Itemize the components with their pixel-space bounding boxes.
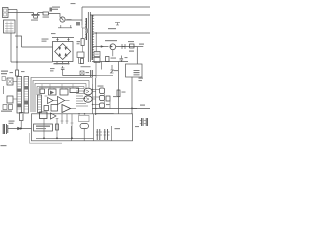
- transistor Q1: [60, 17, 65, 22]
- diode D6 on rail3: [110, 45, 113, 48]
- connector J1 (AC inlet): [3, 8, 9, 18]
- snubber network primary: [77, 52, 84, 58]
- vertical line v96: [95, 78, 97, 115]
- transformer T1 primary winding: [85, 18, 87, 40]
- feedback wires bundle: [76, 89, 88, 107]
- junction AC node 1: [16, 46, 18, 48]
- wire secondary rail 1: [91, 14, 151, 16]
- wire bridge minus return: [63, 72, 96, 76]
- wire primary snubber row: [58, 25, 72, 28]
- wire cap bottom: [34, 17, 38, 19]
- wire h108: [92, 108, 137, 110]
- diode D6: [101, 45, 104, 48]
- part right on rail: [130, 44, 135, 48]
- wire secondary rail 2: [93, 32, 150, 34]
- resistor R30: [56, 124, 59, 130]
- box B5: [51, 105, 58, 112]
- electrolytic C32 C33: [105, 129, 108, 140]
- vertical line v92: [92, 84, 94, 114]
- bridge diamond: [55, 44, 71, 60]
- bus corner 2: [33, 81, 89, 113]
- startup resistors: [94, 52, 100, 57]
- verticals inside module: [57, 114, 72, 138]
- IC1 control ladder B: [24, 77, 29, 114]
- resistor R12: [106, 57, 110, 62]
- label box: [34, 124, 53, 131]
- transistor Q5: [100, 88, 105, 94]
- fuse F1: [43, 12, 49, 15]
- bridge rectifier BR1 box: [53, 42, 74, 62]
- diode D8: [18, 127, 21, 130]
- bridge diodes: [58, 47, 68, 57]
- IC1 control ladder A: [17, 77, 22, 114]
- wire startup drop: [95, 33, 97, 52]
- wire stubs to transistors: [93, 90, 100, 105]
- wire AC line 2 into bridge: [11, 61, 53, 63]
- op-amp A2: [58, 97, 65, 105]
- secondary vertical 118: [118, 62, 120, 114]
- wire x17 riser: [16, 10, 18, 71]
- small part top right: [115, 23, 120, 26]
- capacitor ticks secondary: [56, 119, 74, 124]
- wire output node: [136, 47, 138, 65]
- capacitor C1 (X-cap): [32, 13, 36, 18]
- transformer T1 secondary winding: [91, 15, 93, 60]
- resistor R10: [81, 59, 84, 64]
- bus corner 1: [31, 78, 93, 113]
- wire filter stub: [15, 36, 22, 47]
- bus line 5: [39, 87, 70, 89]
- ladder C: [38, 95, 42, 113]
- outer corner lines: [30, 133, 62, 143]
- wire below mid rail: [96, 62, 113, 79]
- text labels (illegible at scale): [52, 7, 60, 8]
- junction dots opto wires: [84, 90, 85, 91]
- wire primary bottom: [82, 25, 86, 28]
- wire h113: [96, 113, 114, 115]
- capacitor C40 pair right: [142, 118, 143, 126]
- wire mid rail right: [92, 61, 128, 63]
- wire Q1 collector to primary: [65, 19, 82, 21]
- wire primary top riser: [81, 7, 83, 25]
- thermistor box: [80, 71, 84, 75]
- startup resistor marks: [95, 53, 99, 55]
- transistor Q3 regulator: [110, 44, 116, 50]
- wire stubs bus to comps: [42, 84, 73, 89]
- wire top caps of bridge: [52, 38, 74, 42]
- bus corner 3: [35, 84, 86, 113]
- optocoupler IC2: [84, 88, 92, 95]
- wire secondary rail 3: [93, 46, 109, 48]
- box D1: [40, 112, 48, 119]
- inner rail with junctions: [36, 137, 94, 139]
- zener diode ZD1: [111, 65, 114, 73]
- triangle D2: [51, 113, 57, 119]
- wire Q3 emitter down: [112, 50, 114, 57]
- secondary module box: [32, 114, 133, 141]
- varistor RV1: [34, 13, 40, 19]
- PWM small box row: [40, 89, 45, 94]
- wire opto outputs: [92, 92, 96, 100]
- diode D5: [122, 44, 125, 49]
- comparator A3: [62, 105, 71, 113]
- electrolytic pair C21 C22: [3, 124, 4, 134]
- junction dots opto area: [78, 113, 80, 115]
- wire right output drop: [131, 77, 133, 114]
- capacitor C5 polarized: [61, 66, 65, 71]
- bridge terminals: [57, 62, 69, 65]
- wire ground rail right: [132, 107, 150, 109]
- electrolytic C30 C31: [97, 129, 100, 140]
- transformer bottom winding marks: [91, 70, 93, 77]
- wire AC line 1 into bridge: [22, 46, 53, 48]
- optocoupler IC3: [84, 96, 92, 102]
- text T1 label: [77, 41, 81, 42]
- op-amp A1: [48, 98, 54, 104]
- resistor R22: [106, 96, 110, 101]
- resistor box: [44, 106, 49, 111]
- wire filter to lower rail: [10, 33, 12, 62]
- transistor Q6: [100, 96, 105, 101]
- left column parts: [7, 78, 13, 85]
- capacitor C20: [20, 113, 24, 121]
- resistor R20: [117, 90, 120, 97]
- aux supply box: [126, 64, 143, 77]
- wire bundle corners right: [84, 78, 93, 89]
- transistor Q7: [100, 103, 105, 108]
- rounded part: [80, 124, 89, 129]
- junction AC node 2: [16, 61, 18, 63]
- line filter FL1: [4, 20, 16, 33]
- wire AC neutral: [8, 12, 34, 14]
- text smudges: [1, 3, 146, 146]
- wire AC hot: [8, 9, 17, 11]
- partition: [93, 114, 95, 141]
- wire +B rail top: [82, 6, 150, 8]
- capacitor C12: [120, 56, 124, 62]
- wire v44 inside module: [43, 119, 45, 139]
- bus corner 4: [37, 87, 84, 96]
- resistor R5 primary side: [81, 39, 84, 46]
- transformer T1 core: [87, 12, 89, 62]
- fuse resistor on AC: [16, 70, 19, 76]
- wire bottom left: [8, 128, 32, 130]
